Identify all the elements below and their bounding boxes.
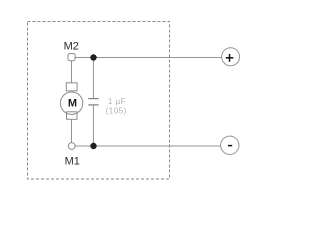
capacitor C1 bottom plate [88,104,98,106]
capacitor C1 top plate [88,98,98,100]
motor M1 lower brush [67,112,78,120]
label - [228,145,232,147]
motor M1 upper brush [66,83,77,91]
terminal + positive [222,48,240,66]
node junction top [90,54,96,60]
terminal M2 [68,54,75,61]
dashed enclosure border [28,22,170,180]
label + [226,54,234,62]
terminal M1 [68,143,75,150]
svg-text:M2: M2 [64,40,79,52]
terminal - negative [221,136,239,154]
wire M2 terminal down to motor [71,61,73,83]
motor M1 body [60,92,82,114]
svg-text:1 µF: 1 µF [108,97,126,106]
svg-text:M1: M1 [65,156,80,168]
wire M1 terminal to - terminal [75,145,221,147]
wire capacitor branch lower [92,105,94,146]
svg-text:(105): (105) [106,107,127,116]
wire M2 terminal to + terminal [75,57,222,59]
svg-text:M: M [68,98,77,110]
node junction bottom [90,143,96,149]
wire motor down to M1 terminal [71,119,73,142]
wire capacitor branch upper [92,58,94,99]
